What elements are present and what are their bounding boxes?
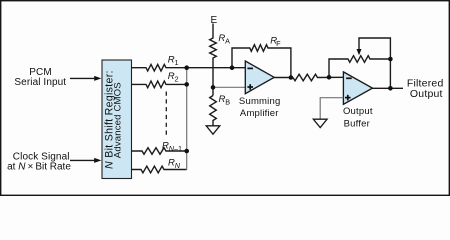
svg-text:2: 2 <box>175 75 179 84</box>
wire: bias to summing + input (gray) <box>213 86 245 88</box>
shift register box U1: N Bit Shift Register Advanced CMOS <box>102 60 132 179</box>
label RN <box>168 158 181 170</box>
ground under buffer + input <box>313 119 327 127</box>
wire: Clock input arrow <box>70 158 101 163</box>
label R2 <box>168 71 179 83</box>
svg-text:B: B <box>225 98 230 107</box>
label: PCM Serial Input <box>14 67 66 88</box>
junction: R2 / summing bus <box>184 82 189 87</box>
potentiometer: buffer feedback <box>329 56 390 78</box>
resistor RF feedback <box>232 45 291 78</box>
label: Clock Signal at N x Bit Rate <box>7 151 71 172</box>
junction: summing amp output node <box>289 75 294 80</box>
label: Output Buffer <box>343 106 373 129</box>
op-amp: output buffer <box>343 72 372 105</box>
svg-text:Amplifier: Amplifier <box>240 108 279 119</box>
label RF <box>270 36 281 48</box>
svg-text:Advanced CMOS: Advanced CMOS <box>112 82 123 158</box>
svg-text:Serial Input: Serial Input <box>14 77 66 88</box>
op-amp: summing amplifier <box>245 61 274 94</box>
svg-text:A: A <box>225 37 230 46</box>
wire: summing amp output <box>274 77 293 79</box>
wiper arrowhead <box>357 49 362 55</box>
ground under RB <box>206 126 220 134</box>
svg-text:F: F <box>276 39 281 48</box>
junction: buffer inverting input node <box>327 75 332 80</box>
label RA <box>218 33 230 46</box>
junction: pot wiper tie node <box>388 57 393 62</box>
junction: RA-RB divider node <box>211 85 216 90</box>
junction: buffer output node <box>388 86 393 91</box>
svg-text:–1: –1 <box>174 144 182 153</box>
wire: summing bus (gray) <box>186 68 188 170</box>
dashed continuation line <box>165 92 167 137</box>
svg-text:Output: Output <box>410 88 443 100</box>
wiper wire of potentiometer <box>359 38 390 88</box>
resistor R2 <box>132 81 187 88</box>
svg-text:Summing: Summing <box>239 96 281 107</box>
svg-text:at N × Bit Rate: at N × Bit Rate <box>7 161 71 172</box>
label RB <box>219 94 231 106</box>
wire: buffer output to Filtered Output <box>373 87 404 89</box>
junction: RN-1 / summing bus <box>184 149 189 154</box>
label: Filtered Output <box>407 78 444 100</box>
resistor RA <box>210 24 217 96</box>
label: Summing Amplifier <box>239 96 281 119</box>
label R1 <box>168 54 179 67</box>
junction: R1 / summing bus <box>184 65 189 70</box>
resistor R1 <box>132 64 187 71</box>
wire: PCM input arrow <box>70 76 101 81</box>
svg-text:E: E <box>211 15 218 26</box>
resistor (unlabeled) between amplifiers <box>293 74 343 81</box>
resistor RB <box>210 96 217 126</box>
svg-text:1: 1 <box>175 58 179 67</box>
svg-text:Buffer: Buffer <box>344 118 370 129</box>
wire: buffer + input to ground <box>320 98 343 119</box>
svg-text:N: N <box>175 161 181 170</box>
resistor RN-1 <box>132 148 187 155</box>
label RN-1 <box>162 141 182 153</box>
wire: summing node line <box>187 67 246 69</box>
junction: RF tap on summing node <box>230 65 235 70</box>
svg-text:Output: Output <box>343 106 373 117</box>
resistor RN <box>132 166 187 173</box>
